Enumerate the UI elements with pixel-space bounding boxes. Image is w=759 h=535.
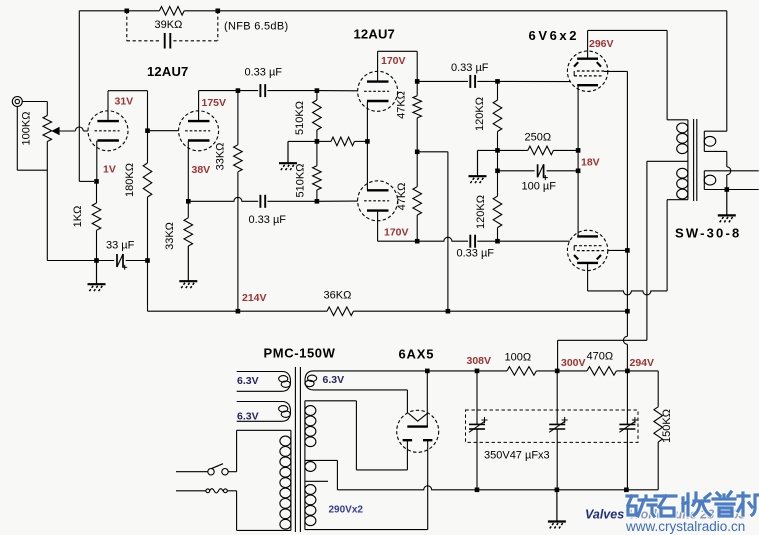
triode V2b 12AU7 driver lower grid xyxy=(364,200,389,202)
rectifier 6AX5 filament xyxy=(408,413,427,421)
wire rail to screen junction xyxy=(448,310,628,312)
svg-text:31V: 31V xyxy=(115,96,134,108)
wire heater bottom rail to filament xyxy=(406,390,408,413)
wire V1a plate up and over to node A xyxy=(107,91,109,121)
wire HV bottom to right anode xyxy=(305,529,428,531)
capacitor 100µF cathode bypass xyxy=(498,170,535,172)
node 100µF tap xyxy=(495,169,500,174)
transformer SW-30-8 secondary winding lower xyxy=(703,171,705,190)
svg-text:38V: 38V xyxy=(192,164,211,176)
svg-text:12AU7: 12AU7 xyxy=(354,27,395,42)
node V2b plate coupling xyxy=(415,239,420,244)
node A plate of V1a / grid of V1b xyxy=(145,128,150,133)
beam tetrode 6V6 lower screen grid g2 xyxy=(577,250,604,252)
svg-text:PMC-150W: PMC-150W xyxy=(264,345,336,360)
svg-text:294V: 294V xyxy=(630,357,655,369)
potentiometer 100KΩ volume xyxy=(43,116,52,142)
wire V2a plate up/over to coupling node xyxy=(377,51,379,81)
node lower grid ladder xyxy=(315,199,320,204)
node filter 1 ground xyxy=(475,488,480,493)
node upper 6V6 grid xyxy=(495,79,500,84)
resistor 47KΩ plate load V2b xyxy=(416,152,418,187)
triode V2b 12AU7 driver lower cathode xyxy=(367,189,389,191)
wire driver B+ to 308V rail riser xyxy=(417,151,448,153)
svg-text:150KΩ: 150KΩ xyxy=(661,409,673,443)
wire screen bus to 294V node (hop around cross line) xyxy=(626,311,628,336)
transformer SW-30-8 secondary winding upper xyxy=(703,131,705,151)
svg-text:6.3V: 6.3V xyxy=(237,375,259,387)
node 214V dropper xyxy=(145,258,150,263)
node cathode/250Ω xyxy=(576,148,581,153)
capacitor 0.33µF coupling from V1b plate xyxy=(238,90,258,92)
beam tetrode 6V6 lower beam plates xyxy=(574,255,578,259)
transformer SW-30-8 primary winding xyxy=(687,120,689,200)
svg-text:510KΩ: 510KΩ xyxy=(294,101,306,135)
svg-text:(NFB 6.5dB): (NFB 6.5dB) xyxy=(224,21,288,33)
resistor 1KΩ cathode bias xyxy=(96,181,98,203)
svg-text:100 µF: 100 µF xyxy=(522,181,557,193)
capacitor 0.33µF coupling from V1b cathode xyxy=(259,195,261,208)
wire upper coupling line xyxy=(417,80,468,82)
wire 294V riser to center tap (horizontal run) xyxy=(558,339,647,341)
svg-text:170V: 170V xyxy=(384,227,409,239)
svg-text:www.crystalradio.cn: www.crystalradio.cn xyxy=(625,519,745,534)
node V1a cathode xyxy=(94,179,99,184)
wire node A to V1b grid xyxy=(148,130,179,132)
wire V2b plate down to coupling node xyxy=(377,211,379,242)
transformer PMC HV secondary 290Vx2 xyxy=(304,401,306,530)
svg-text:SW-30-8: SW-30-8 xyxy=(675,226,741,241)
wire between taps xyxy=(497,150,499,170)
wire shared cathode line (18V) xyxy=(577,85,579,236)
node 214V / V1b feed xyxy=(236,309,241,314)
resistor 470Ω xyxy=(557,370,587,372)
svg-text:175V: 175V xyxy=(202,97,227,109)
svg-text:6AX5: 6AX5 xyxy=(399,347,435,362)
wire HV bias tap stub xyxy=(305,480,328,482)
svg-text:296V: 296V xyxy=(589,38,614,50)
node driver feed on rail xyxy=(446,309,451,314)
node B+ feed for driver loads xyxy=(415,150,420,155)
node 308V xyxy=(475,369,480,374)
svg-text:350V47 µFx3: 350V47 µFx3 xyxy=(484,450,550,462)
beam tetrode 6V6 upper cathode xyxy=(577,84,598,86)
node grid-return/ground tap xyxy=(495,148,500,153)
beam tetrode 6V6 upper envelope xyxy=(567,51,607,91)
svg-text:0.33 µF: 0.33 µF xyxy=(245,67,283,79)
svg-text:170V: 170V xyxy=(381,55,406,67)
wire secondary tap to common (hop over speaker line) xyxy=(704,150,727,152)
resistor 510KΩ upper xyxy=(316,91,318,100)
wire 294V to bleeder 150KΩ xyxy=(627,370,658,372)
svg-text:12AU7: 12AU7 xyxy=(147,64,188,79)
wire lower screen lead xyxy=(608,249,628,251)
resistor 33KΩ plate load V1b xyxy=(237,91,239,145)
svg-text:1V: 1V xyxy=(103,164,116,176)
wire upper 6V6 plate to OPT primary top xyxy=(587,30,589,58)
svg-text:6.3V: 6.3V xyxy=(323,374,345,386)
svg-text:39KΩ: 39KΩ xyxy=(155,19,183,31)
node screen bus joins 308V rail xyxy=(625,309,630,314)
wire down to 214V rail xyxy=(147,261,149,312)
wire primary top to switch xyxy=(237,429,291,431)
resistor 36KΩ dropper xyxy=(238,310,327,312)
svg-text:100Ω: 100Ω xyxy=(505,352,532,364)
wire/hop V1b cathode output line to lower coupling cap xyxy=(188,197,258,201)
svg-text:120KΩ: 120KΩ xyxy=(474,97,486,131)
watermark Chinese characters xyxy=(627,492,759,516)
wire V2a/V2b cathodes common xyxy=(366,101,368,190)
switch power xyxy=(176,471,208,473)
ground chassis (PSU) xyxy=(556,490,558,522)
svg-text:100KΩ: 100KΩ xyxy=(21,112,33,146)
rectifier 6AX5 anodes xyxy=(403,439,413,441)
wire lower 6V6 plate to OPT primary bottom (hops over screen and B+ feeds) xyxy=(587,264,589,291)
node 300V xyxy=(555,369,560,374)
svg-text:250Ω: 250Ω xyxy=(525,132,552,144)
node cathode/100µF xyxy=(576,169,581,174)
resistor 33KΩ cathode load V1b xyxy=(187,201,189,218)
svg-text:290Vx2: 290Vx2 xyxy=(329,505,364,516)
svg-text:0.33 µF: 0.33 µF xyxy=(249,214,287,226)
wire lower 6V6 grid lead xyxy=(498,240,570,242)
capacitor filter 3 47µF xyxy=(626,371,628,425)
wire to V2b grid xyxy=(317,200,358,202)
wire to V2a grid xyxy=(317,90,358,92)
triode V2a 12AU7 driver upper plate xyxy=(367,80,389,82)
transformer PMC spare 6.3V winding 2 xyxy=(237,402,291,422)
node feedback-right xyxy=(216,9,221,14)
triode V1a 12AU7 first stage plate xyxy=(97,120,119,122)
capacitor filter 1 47µF xyxy=(476,371,478,425)
svg-text:120KΩ: 120KΩ xyxy=(475,195,487,229)
wire cathode to B+ rail xyxy=(426,371,428,427)
resistor 39KΩ feedback xyxy=(159,7,184,16)
node grid ladder center xyxy=(315,139,320,144)
wire - negative feedback line from output transformer secondary to first stage cathode (top rail) xyxy=(79,10,159,12)
wire V1b plate up to plate node xyxy=(198,91,200,121)
node filter 3 ground xyxy=(624,488,629,493)
capacitor filter 2 47µF xyxy=(556,371,558,425)
node upper grid ladder xyxy=(315,88,320,93)
svg-text:36KΩ: 36KΩ xyxy=(324,290,352,302)
wire jack sleeve + pot bottom to ground bus xyxy=(16,107,18,171)
capacitor 33µF decoupling xyxy=(116,254,118,267)
node filter 2 ground xyxy=(555,488,560,493)
wire HV center tap to ground rail xyxy=(305,459,338,461)
svg-text:0.33 µF: 0.33 µF xyxy=(451,62,489,74)
wire jack tip to volume pot top xyxy=(22,101,47,103)
node lower 6V6 screen xyxy=(625,248,630,253)
resistor 150KΩ bleeder xyxy=(654,407,663,442)
svg-text:470Ω: 470Ω xyxy=(587,351,614,363)
node V1b cathode xyxy=(186,199,191,204)
capacitor 0.33µF coupling to upper 6V6 xyxy=(469,75,471,88)
svg-text:6V6x2: 6V6x2 xyxy=(529,28,580,43)
resistor 100Ω xyxy=(477,370,507,372)
wire/hop lower coupling line over B+ riser xyxy=(417,237,468,241)
wire speaker output common terminal xyxy=(704,189,758,191)
rectifier 6AX5 envelope xyxy=(397,410,439,452)
resistor 120KΩ grid return upper xyxy=(497,81,499,100)
svg-text:1KΩ: 1KΩ xyxy=(72,206,84,228)
resistor 510KΩ lower xyxy=(316,141,318,165)
wire V1b cathode down xyxy=(187,141,189,202)
node secondary common xyxy=(725,187,730,192)
svg-text:0.33 µF: 0.33 µF xyxy=(457,248,495,260)
wire upper 6V6 grid lead xyxy=(498,80,570,82)
beam tetrode 6V6 upper plate xyxy=(577,58,598,60)
beam tetrode 6V6 lower envelope xyxy=(567,230,607,270)
triode V1a 12AU7 first stage grid xyxy=(95,130,120,132)
wire pot wiper to first triode grid (hop over feedback line) xyxy=(59,130,75,132)
input jack xyxy=(12,97,22,107)
beam tetrode 6V6 upper screen grid g2 xyxy=(577,70,604,72)
ground chassis (6V6 bias network) xyxy=(477,150,479,176)
svg-text:33KΩ: 33KΩ xyxy=(215,143,227,171)
beam tetrode 6V6 lower plate xyxy=(577,262,598,264)
ground chassis (V1b cathode) xyxy=(187,246,189,281)
node 294V xyxy=(625,369,630,374)
beam tetrode 6V6 upper control grid g1 xyxy=(574,75,602,77)
wire HV top to left anode xyxy=(305,400,357,402)
wire ladder center to ground xyxy=(288,140,317,142)
transformer PMC primary winding xyxy=(290,430,292,530)
wire B+ rail 308V section xyxy=(427,370,477,372)
triode V1a 12AU7 first stage cathode xyxy=(97,139,119,141)
triode V1b 12AU7 phase splitter plate xyxy=(188,120,210,122)
transformer SW-30-8 core xyxy=(693,119,695,201)
triode V2a 12AU7 driver upper envelope xyxy=(358,71,398,111)
transformer PMC core xyxy=(294,367,296,532)
triode V2a 12AU7 driver upper grid xyxy=(364,90,389,92)
ground chassis (secondary) xyxy=(726,190,728,216)
resistor 120KΩ grid return lower xyxy=(497,171,499,196)
beam tetrode 6V6 lower control grid g1 xyxy=(574,245,602,247)
wire V1a cathode down to cathode node xyxy=(96,141,98,182)
svg-text:6.3V: 6.3V xyxy=(237,410,259,422)
resistor 180KΩ plate load V1a xyxy=(147,131,149,163)
wire 214V rail xyxy=(148,310,238,312)
dashed box filter capacitors xyxy=(466,410,639,442)
node V2a plate coupling xyxy=(415,79,420,84)
svg-text:33 µF: 33 µF xyxy=(106,239,135,251)
node V1b plate xyxy=(236,88,241,93)
triode V1b 12AU7 phase splitter envelope xyxy=(179,111,219,151)
resistor 250Ω cathode bias xyxy=(498,149,528,151)
svg-text:180KΩ: 180KΩ xyxy=(124,163,136,197)
rectifier 6AX5 cathode xyxy=(407,425,428,427)
triode V1b 12AU7 phase splitter grid xyxy=(185,130,210,132)
wire speaker output + terminal xyxy=(704,170,758,172)
resistor tail (cathode bias, unlabeled) xyxy=(317,140,331,142)
resistor 47KΩ plate load V2a xyxy=(416,81,418,95)
svg-text:300V: 300V xyxy=(561,357,586,369)
svg-text:308V: 308V xyxy=(467,355,492,367)
beam tetrode 6V6 upper beam plates xyxy=(574,62,578,66)
node feedback-left xyxy=(125,9,130,14)
node lower 6V6 grid xyxy=(495,239,500,244)
svg-text:214V: 214V xyxy=(242,292,267,304)
svg-text:Valves': Valves' xyxy=(585,508,628,522)
ground chassis (first stage) xyxy=(96,261,98,285)
svg-text:33KΩ: 33KΩ xyxy=(164,222,176,250)
wire screen bus xyxy=(604,70,628,72)
triode V2b 12AU7 driver lower plate xyxy=(367,209,389,211)
transformer SW-30-8 center tap feed from 294V xyxy=(647,160,688,162)
transformer PMC spare 6.3V winding 1 xyxy=(237,372,291,392)
triode V2b 12AU7 driver lower envelope xyxy=(358,181,398,221)
triode V1b 12AU7 phase splitter cathode xyxy=(188,139,210,141)
svg-text:47KΩ: 47KΩ xyxy=(396,183,408,211)
triode V2a 12AU7 driver upper cathode xyxy=(367,100,389,102)
beam tetrode 6V6 lower cathode xyxy=(577,235,598,237)
svg-text:18V: 18V xyxy=(581,157,600,169)
wire PSU ground rail (hop over right anode lead) xyxy=(337,486,477,490)
transformer PMC heater 6.3V winding (rectifier) xyxy=(305,371,427,390)
capacitor 0.33µF coupling to lower 6V6 xyxy=(469,235,471,248)
svg-text:47KΩ: 47KΩ xyxy=(396,91,408,119)
node ground bus at 1K bottom xyxy=(94,258,99,263)
ground chassis (ladder) xyxy=(287,141,289,163)
triode V1a 12AU7 first stage envelope xyxy=(88,111,128,151)
wire primary bottom to fuse xyxy=(236,491,238,531)
node rectifier output on rail xyxy=(425,369,430,374)
node common cathodes xyxy=(365,139,370,144)
wire ground tap xyxy=(478,149,498,151)
fuse xyxy=(176,490,206,492)
capacitor NFB compensation (dashed optional branch) xyxy=(126,11,128,41)
svg-text:510KΩ: 510KΩ xyxy=(295,164,307,198)
